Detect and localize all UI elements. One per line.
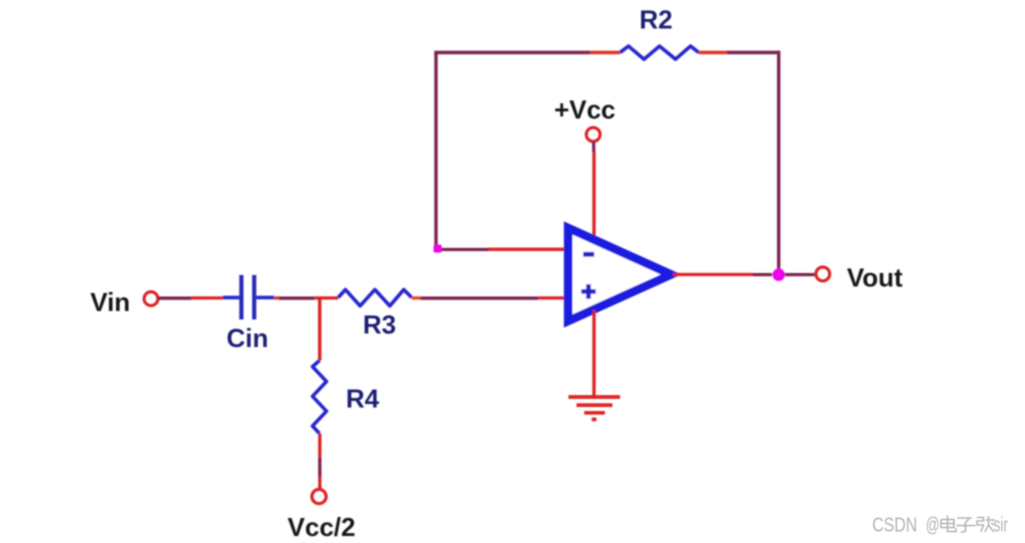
- pin + (noninverting marker): [581, 284, 595, 298]
- wire feedback top horizontal left segment: [434, 51, 590, 54]
- wire R3 right red stub: [412, 296, 421, 299]
- wire output maroon to node: [753, 273, 772, 276]
- wire to noninverting input red: [539, 296, 566, 299]
- svg-text:R4: R4: [346, 384, 380, 414]
- terminal +Vcc: [586, 128, 600, 142]
- wire feedback left vertical (inverting node to top): [434, 53, 437, 251]
- svg-text:@: @: [926, 514, 940, 537]
- svg-text:Vout: Vout: [847, 263, 903, 293]
- wire output red: [673, 273, 753, 276]
- terminal Vin: [144, 292, 158, 306]
- wire Vin to Cin maroon: [158, 297, 192, 300]
- wire Vin to Cin red: [192, 296, 223, 299]
- wire Cin to junction maroon: [279, 297, 315, 300]
- pin - (inverting marker): [583, 252, 594, 257]
- wire below R4 purple: [318, 457, 321, 477]
- node inverting feedback junction (magenta): [434, 245, 442, 253]
- svg-text:sir: sir: [994, 514, 1009, 537]
- terminal Vcc/2: [312, 489, 326, 503]
- svg-text:R3: R3: [363, 310, 396, 340]
- svg-text:+Vcc: +Vcc: [554, 95, 615, 125]
- wire opamp to ground red: [592, 310, 595, 397]
- resistor R2: [620, 46, 699, 59]
- svg-text:R2: R2: [639, 5, 672, 35]
- wire junction tee red: [315, 296, 339, 299]
- watermark CSDN: [872, 514, 1008, 537]
- node output junction (magenta): [773, 269, 785, 281]
- svg-text:Cin: Cin: [226, 323, 268, 353]
- wire inverting input maroon: [436, 248, 489, 251]
- wire node to Vout terminal maroon: [785, 273, 816, 276]
- wire to Vcc/2 terminal red: [318, 477, 321, 489]
- wire feedback top horizontal right segment: [727, 51, 779, 54]
- watermark glyph 电: [941, 516, 956, 532]
- wire below R4 red: [318, 434, 321, 458]
- wire Vcc vertical red: [592, 152, 595, 240]
- wire red stub left of R2: [590, 51, 620, 54]
- wire Vcc stub purple: [592, 142, 595, 153]
- resistor R3: [338, 290, 411, 306]
- wire feedback right vertical (top to output node): [777, 51, 780, 275]
- svg-text:Vin: Vin: [90, 287, 130, 317]
- watermark glyph 张: [977, 516, 995, 532]
- svg-text:CSDN: CSDN: [872, 514, 917, 537]
- capacitor Cin: [223, 275, 274, 320]
- terminal Vout: [816, 267, 830, 281]
- wire red stub right of R2: [699, 51, 727, 54]
- watermark glyph 子: [957, 518, 976, 533]
- op-amp U1: [568, 228, 671, 321]
- svg-text:Vcc/2: Vcc/2: [288, 512, 356, 542]
- wire R3 to opamp maroon: [421, 297, 539, 300]
- node junction vertical start: [318, 298, 321, 361]
- wire inverting input red: [489, 248, 566, 251]
- ground: [568, 397, 620, 419]
- resistor R4: [313, 361, 327, 434]
- wire Cin to junction red stub: [274, 296, 279, 299]
